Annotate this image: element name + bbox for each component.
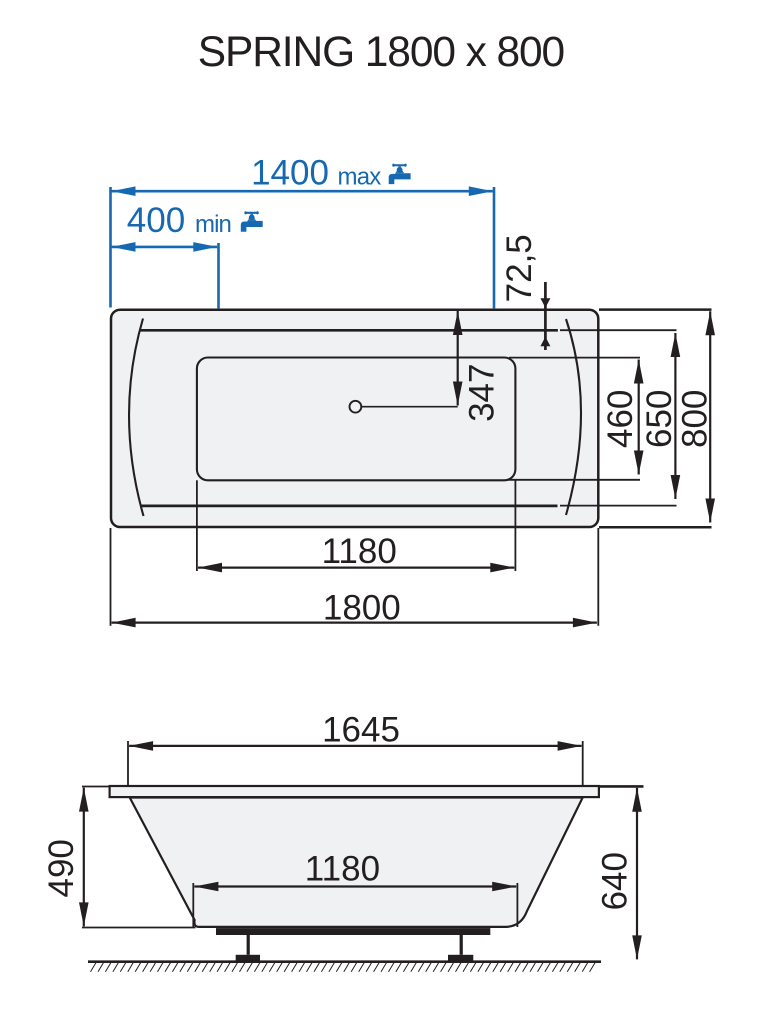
top view: drain hole [350,401,362,413]
svg-text:1645: 1645 [322,710,400,749]
svg-text:800: 800 [676,390,715,448]
dimension line 400 min [112,246,218,249]
svg-text:min: min [195,211,231,238]
extension lines for 1800 [110,528,112,626]
extension lines for 1180 top view [196,480,198,571]
arrowhead 1180s right [492,882,516,892]
svg-text:650: 650 [640,390,679,448]
blue extension line right for 1400 [493,187,496,308]
dimension line 650 [674,333,676,499]
top view: leader line from drain to 347 dimension [361,406,458,408]
dimension line 1180 top view [198,566,514,568]
arrowhead 347 up [453,311,463,335]
arrowhead 800 down [705,499,715,523]
arrowhead 640 up [632,788,642,812]
arrowhead 1800 left [112,618,136,628]
dimension line 460 [638,360,640,475]
faucet icon (max position) [389,164,411,185]
arrowhead 460 up [634,360,644,384]
arrowhead 460 down [634,451,644,475]
arrowhead 72,5 up [540,337,550,347]
svg-text:400: 400 [127,201,185,240]
arrowhead 490 up [79,788,89,812]
svg-text:SPRING 1800 x 800: SPRING 1800 x 800 [198,29,564,76]
blue extension line right for 400 [217,243,220,308]
dimension line 1400 max [112,190,493,193]
extension lines for 490 [82,786,110,788]
top view: rim left end arc [129,319,143,517]
top view: inner rim top edge [141,329,558,332]
arrowhead 400 left [112,242,136,252]
svg-text:640: 640 [595,852,634,910]
arrowhead 1180 left [198,563,222,573]
top view: rim right end arc [566,319,581,515]
svg-text:1180: 1180 [305,850,380,889]
ground line [88,960,601,963]
top view: inner rim bottom edge [141,505,558,508]
dimension line 72,5 [544,282,547,350]
svg-text:72,5: 72,5 [500,234,539,302]
svg-text:1800: 1800 [323,589,401,628]
side view: right foot [460,935,463,955]
dimension line 1800 [112,621,597,623]
dimension line 800 [709,311,711,522]
arrowhead 347 down [453,382,463,406]
arrowhead 400 right [193,242,217,252]
arrowhead 650 up [671,333,681,357]
dimension line 640 [636,788,638,960]
dimension line 1180 side view [194,885,516,887]
arrowhead 1180 right [490,563,514,573]
extension lines for 460 [509,357,640,359]
arrowhead 640 down [632,935,642,959]
svg-text:460: 460 [601,390,640,448]
arrowhead 1400 right [469,186,493,196]
arrowhead 1400 left [112,186,136,196]
extension lines for 1645 [127,741,129,786]
top view: tub floor (rounded rect) [197,358,516,481]
arrowhead 1180s left [194,882,218,892]
blue extension line left (tub left edge up) [109,187,112,308]
side view: support frame bar [216,928,490,935]
extension line for 640 top [598,785,644,788]
side view: left foot [247,935,250,955]
dimension line 490 [83,788,85,927]
svg-text:1180: 1180 [322,532,397,571]
svg-text:490: 490 [42,839,81,897]
extension lines for 650 [560,329,677,331]
faucet icon (min position) [241,211,263,232]
side view: tub body cross-section [130,798,583,927]
arrowhead 1645 left [129,741,153,751]
arrowhead 800 up [705,311,715,335]
bathtub top view: outer rim (rounded rect 1800x800) [111,310,598,527]
arrowhead 72,5 down [540,298,550,308]
arrowhead 1645 right [558,741,582,751]
dimension line 1645 [129,745,581,747]
svg-text:1400: 1400 [251,153,329,192]
arrowhead 1800 right [573,618,597,628]
ground hatching [91,963,596,972]
svg-text:max: max [338,164,382,191]
arrowhead 650 down [671,475,681,499]
extension lines for 800 [599,308,712,311]
svg-text:347: 347 [463,363,502,421]
side view: rim flange plate [110,786,599,797]
dimension line 347 (top edge to drain) [457,311,459,406]
extension lines for 1180 side view [192,883,194,928]
arrowhead 490 down [79,902,89,926]
